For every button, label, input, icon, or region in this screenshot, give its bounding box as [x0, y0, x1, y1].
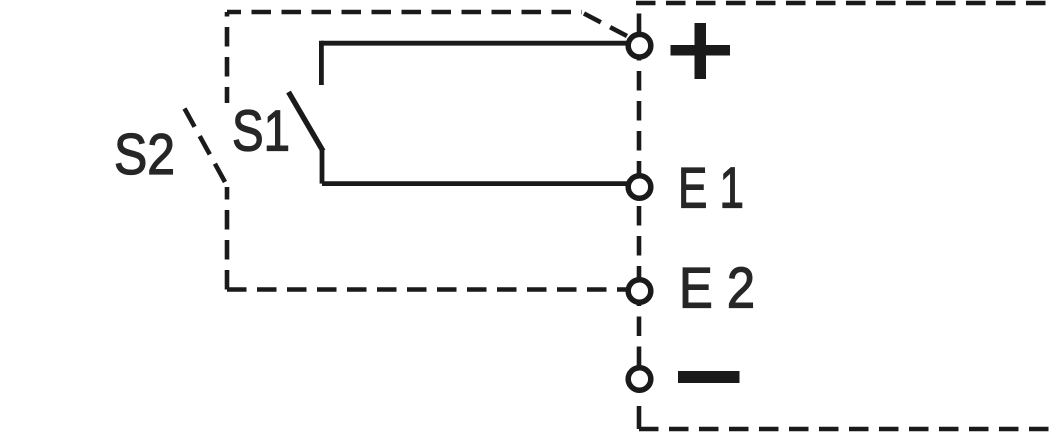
wire: left dashed box bottom edge to E2 terminal	[227, 287, 627, 292]
terminal circle +	[628, 34, 651, 57]
wire: dashed diagonal into + terminal	[584, 14, 627, 37]
wire: top horizontal from S1 to + terminal	[321, 41, 628, 46]
svg-text:S1: S1	[232, 100, 290, 164]
terminal circle minus	[628, 368, 651, 391]
terminal circle E1	[628, 176, 651, 199]
wire: S1 upper vertical (fixed contact)	[319, 41, 324, 85]
wire: right dashed vertical between E2 and minus	[637, 304, 642, 366]
svg-text:E 1: E 1	[678, 157, 744, 221]
plus symbol	[671, 23, 731, 79]
wire: right dashed vertical between E1 and E2	[637, 200, 642, 278]
svg-text:S2: S2	[114, 123, 175, 187]
wire: left dashed box left edge upper part	[225, 12, 230, 103]
wire: right dashed box top edge	[636, 1, 1049, 6]
wire: right dashed box bottom edge	[639, 427, 1049, 432]
wire: right dashed vertical below minus	[637, 392, 642, 429]
wire: left dashed box top edge	[227, 10, 582, 15]
minus symbol	[678, 371, 740, 383]
wire: lower horizontal from S1 to E1 terminal	[322, 181, 627, 186]
switch S2 lever (dashed)	[185, 109, 226, 183]
wire: left dashed box left edge lower part	[225, 187, 230, 290]
svg-text:E 2: E 2	[679, 257, 755, 321]
switch S1 lever	[289, 92, 324, 151]
wire: right dashed vertical between + and E1	[637, 59, 642, 174]
wire: S1 lower vertical (pivot)	[320, 150, 325, 184]
terminal circle E2	[628, 280, 651, 303]
wire: right dashed vertical above + terminal	[637, 3, 642, 33]
